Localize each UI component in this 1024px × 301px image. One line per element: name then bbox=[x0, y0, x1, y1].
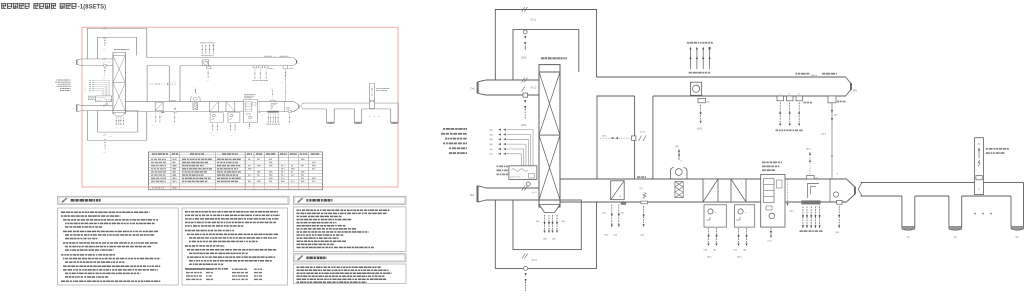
node notes column 3 lower bbox=[293, 264, 406, 284]
node notes header bar 3 bbox=[293, 254, 406, 262]
reduced copy of schematic on sheet bbox=[55, 28, 398, 154]
svg-text:-1(8SETS): -1(8SETS) bbox=[78, 5, 106, 11]
node notes header bar 2 bbox=[293, 196, 406, 204]
node notes header bar 1 bbox=[58, 196, 289, 204]
node notes column 2 bbox=[182, 208, 288, 285]
node drawing frame (red) bbox=[82, 27, 398, 187]
label drawing title bbox=[1, 3, 2, 9]
full-size schematic (right) bbox=[441, 7, 1024, 299]
node notes column 3 upper bbox=[293, 207, 406, 251]
node notes column 1 bbox=[58, 208, 179, 285]
node equipment table bbox=[149, 152, 323, 190]
